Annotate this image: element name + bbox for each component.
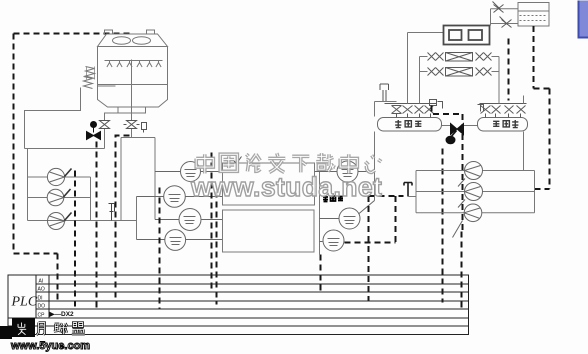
tank inlet line 1 with valve bbox=[491, 2, 519, 24]
strip labels bbox=[38, 279, 46, 319]
control drop x115 bbox=[116, 136, 130, 301]
svg-text:PLC: PLC bbox=[11, 295, 38, 310]
pump P6 bbox=[453, 204, 482, 238]
dashes top right bbox=[509, 26, 550, 189]
sensor S6 bbox=[320, 201, 375, 230]
dark label zhilengji bbox=[323, 196, 343, 202]
tower center pipe and chilled water risers bbox=[131, 60, 133, 138]
sensor S2 bbox=[137, 186, 223, 208]
label jishuiqi bbox=[493, 120, 518, 128]
branch 1 bbox=[420, 53, 500, 62]
jishuiqi header bbox=[478, 118, 528, 132]
sensor S1 bbox=[155, 162, 223, 182]
right pump manifold bbox=[416, 171, 535, 213]
tower side pipe bbox=[25, 88, 81, 149]
svg-text:AO: AO bbox=[38, 287, 45, 293]
pump group box bbox=[25, 149, 137, 221]
jishuiqi valve row bbox=[478, 104, 527, 118]
pipe down from fenshuiqi bbox=[374, 102, 376, 201]
cooling tower bbox=[98, 30, 168, 113]
top hline y32 bbox=[408, 32, 444, 34]
sensor S4 bbox=[137, 230, 223, 251]
vent right bbox=[404, 183, 412, 197]
control dashed rail left bbox=[14, 34, 133, 301]
drop from MV1 bbox=[96, 142, 98, 310]
bus lines bbox=[36, 284, 469, 309]
svg-text:▶—DX2: ▶—DX2 bbox=[49, 311, 75, 318]
check mark bbox=[234, 157, 242, 164]
double box bbox=[444, 26, 490, 45]
chiller lower rect bbox=[223, 210, 315, 252]
chiller upper rect bbox=[223, 163, 315, 205]
fenshuiqi valve row bbox=[385, 100, 443, 118]
svg-text:www.studa.net: www.studa.net bbox=[190, 172, 382, 202]
control dashes right of chiller bbox=[321, 196, 404, 301]
motor valve MV1 bbox=[87, 122, 101, 140]
condenser pipe from base bbox=[105, 113, 119, 149]
flexible connector pair bbox=[84, 67, 95, 89]
tank bbox=[518, 3, 549, 27]
vent over fenshuiqi bbox=[380, 84, 389, 102]
fenshuiqi header bbox=[378, 118, 442, 132]
sensor S7 bbox=[320, 230, 345, 251]
pump P4 bbox=[458, 162, 483, 187]
watermark bottom suiyue lianmeng bbox=[18, 323, 85, 335]
motor valve MV2 between headers bbox=[442, 124, 478, 144]
valve on condenser pipe bbox=[100, 121, 110, 129]
svg-text:CP: CP bbox=[38, 313, 46, 319]
pump P5 bbox=[458, 183, 483, 208]
watermark bottom black blocks bbox=[0, 326, 12, 339]
small vent left bbox=[109, 204, 115, 221]
label fenshuiqi bbox=[395, 120, 421, 128]
tank inlet line 2 with valve bbox=[491, 17, 519, 28]
svg-text:www.5yue.com: www.5yue.com bbox=[10, 340, 90, 352]
feed lines from above bbox=[407, 33, 409, 104]
svg-text:DO: DO bbox=[38, 304, 46, 310]
pump P1 bbox=[47, 168, 71, 185]
svg-text:DI: DI bbox=[38, 296, 43, 302]
branch 2 bbox=[420, 68, 500, 77]
drops from MV2 bbox=[432, 106, 463, 310]
right pipe of chiller bbox=[319, 172, 321, 255]
small instrument right of valve bbox=[142, 123, 147, 133]
blue ui artifact bbox=[578, 1, 588, 39]
PLC box bbox=[8, 275, 469, 335]
pump P3 bbox=[48, 213, 72, 230]
pump P2 bbox=[47, 189, 70, 206]
sensor S3 bbox=[155, 209, 223, 231]
valve under tower center bbox=[124, 121, 140, 129]
control drop x159 bbox=[159, 188, 161, 310]
sensor S5 bbox=[315, 161, 375, 182]
drops near chiller left bbox=[212, 153, 217, 305]
watermark center line1 bbox=[196, 153, 381, 173]
svg-text:AI: AI bbox=[39, 279, 44, 285]
control drop x74.5 (pumps) bbox=[74, 171, 76, 310]
